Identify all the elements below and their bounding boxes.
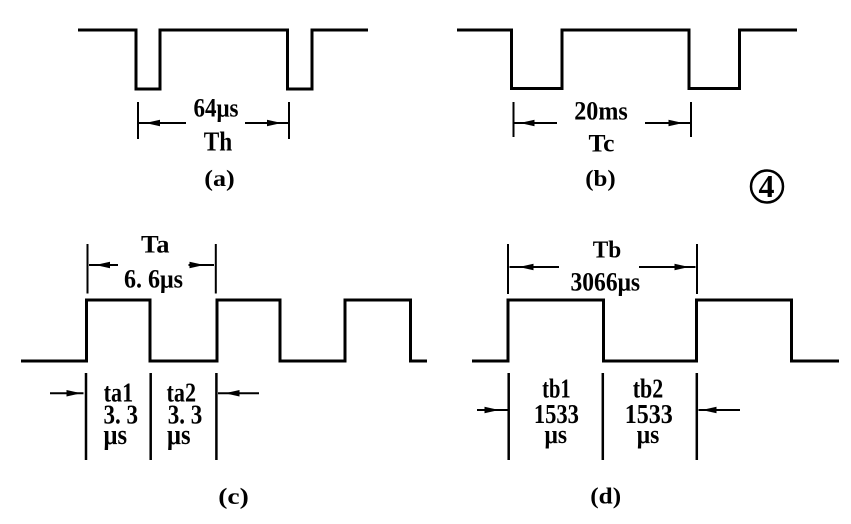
figure number circle 4 (751, 168, 783, 204)
extension line bottom-left (d) (507, 373, 510, 460)
waveform (b) (457, 30, 797, 89)
svg-text:3066μs: 3066μs (571, 268, 641, 297)
extension line bottom-left (c) (85, 373, 88, 460)
extension line top-left (c) (87, 244, 89, 294)
dimension arrow left (a) (139, 120, 186, 127)
side arrow bottom-right (d) (699, 407, 741, 414)
extension line left (b) (513, 102, 515, 137)
extension line top-left (d) (507, 244, 509, 294)
svg-text:(b): (b) (585, 166, 616, 191)
waveform (c) (21, 300, 427, 361)
dimension arrow top-left (d) (510, 264, 560, 271)
dimension arrow top-left (c) (89, 262, 118, 269)
svg-text:Ta: Ta (141, 232, 170, 259)
extension line top-right (d) (696, 244, 698, 294)
svg-text:(d): (d) (590, 484, 621, 509)
extension line bottom-right (d) (696, 373, 699, 460)
svg-text:Th: Th (204, 127, 233, 157)
svg-text:(c): (c) (218, 484, 249, 509)
svg-text:64μs: 64μs (194, 94, 239, 123)
svg-text:μs: μs (167, 420, 191, 451)
extension line right (a) (288, 102, 290, 139)
dimension arrow left (b) (515, 120, 558, 127)
extension line bottom-right (c) (215, 373, 218, 460)
side arrow bottom-left (c) (50, 390, 84, 397)
side arrow bottom-left (d) (477, 407, 508, 414)
extension line right (b) (690, 102, 692, 137)
svg-text:μs: μs (545, 420, 568, 449)
svg-text:(a): (a) (204, 166, 235, 191)
extension line top-right (c) (215, 244, 217, 294)
waveform (d) (472, 300, 839, 361)
extension line left (a) (137, 102, 139, 139)
svg-text:20ms: 20ms (574, 97, 628, 126)
waveform (a) (78, 30, 368, 89)
svg-text:4: 4 (759, 168, 775, 204)
svg-text:μs: μs (104, 420, 128, 451)
extension line bottom-middle (d) (602, 373, 605, 460)
svg-text:6. 6μs: 6. 6μs (124, 264, 183, 293)
svg-text:Tc: Tc (589, 131, 615, 158)
extension line bottom-middle (c) (149, 373, 152, 460)
svg-text:Tb: Tb (593, 238, 622, 264)
dimension arrow right (b) (645, 120, 690, 127)
side arrow bottom-right (c) (218, 390, 259, 397)
dimension arrow right (a) (245, 120, 288, 127)
dimension arrow top-right (d) (639, 264, 696, 271)
svg-text:μs: μs (637, 420, 660, 449)
dimension arrow top-right (c) (189, 262, 215, 269)
